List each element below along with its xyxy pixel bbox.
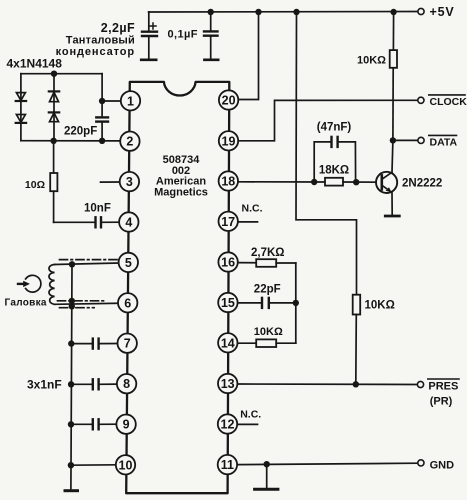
wire left vertical bus bbox=[71, 264, 72, 488]
svg-text:11: 11 bbox=[221, 458, 234, 472]
wire pin12 N.C. stub bbox=[238, 423, 258, 425]
head icon bbox=[18, 275, 41, 292]
svg-text:3: 3 bbox=[126, 175, 133, 189]
wire right local vertical bbox=[295, 263, 297, 343]
core dash-dot top bbox=[60, 259, 118, 261]
resistor R4 18K bbox=[325, 178, 382, 186]
wire +5V top rail bbox=[149, 11, 418, 14]
svg-text:Танталовый: Танталовый bbox=[66, 35, 135, 47]
node top rail / pin20 riser bbox=[255, 9, 261, 15]
node bottom rail / 10ohm bbox=[50, 138, 56, 144]
wire pin20 to +5V bbox=[238, 12, 259, 100]
svg-text:13: 13 bbox=[221, 377, 235, 391]
node head vertical mid bbox=[69, 298, 75, 304]
resistor R5 2.7K bbox=[256, 259, 296, 267]
ground transistor emitter bbox=[385, 215, 399, 218]
node 22pF right bbox=[293, 300, 299, 306]
svg-text:10KΩ: 10KΩ bbox=[254, 326, 283, 338]
wire diode top rail bbox=[21, 73, 102, 75]
wire to 10nF bbox=[54, 221, 96, 223]
svg-text:GND: GND bbox=[430, 460, 455, 472]
svg-text:+5V: +5V bbox=[430, 5, 455, 19]
svg-text:7: 7 bbox=[124, 337, 131, 351]
node diode top rail bbox=[51, 71, 57, 77]
pin 3 bbox=[120, 172, 139, 191]
diode D1 bbox=[16, 93, 26, 101]
capacitor C3 220pF bbox=[96, 117, 108, 140]
capacitor C6 1nF bbox=[71, 379, 117, 389]
wire diode bottom rail to pin 2 bbox=[21, 140, 121, 142]
svg-text:6: 6 bbox=[124, 296, 131, 310]
node base bbox=[353, 179, 359, 185]
node bottom rail / 220pF bbox=[99, 138, 105, 144]
svg-text:19: 19 bbox=[222, 134, 236, 148]
pin 20 bbox=[219, 90, 238, 109]
svg-text:9: 9 bbox=[123, 418, 130, 432]
diode D3 bbox=[49, 91, 59, 101]
resistor R3 10K bbox=[353, 295, 361, 385]
svg-text:(PR): (PR) bbox=[430, 396, 453, 408]
svg-text:10KΩ: 10KΩ bbox=[365, 300, 395, 312]
node 1nF c bbox=[68, 421, 74, 427]
svg-text:конденсатор: конденсатор bbox=[56, 46, 135, 58]
svg-text:17: 17 bbox=[221, 215, 235, 229]
svg-text:4: 4 bbox=[125, 216, 132, 230]
terminal DATA bbox=[418, 137, 424, 143]
wire pin13 PRES line bbox=[238, 383, 417, 386]
wire pin17 N.C. stub bbox=[238, 221, 258, 223]
node DATA bbox=[390, 137, 396, 143]
pin 15 bbox=[218, 293, 237, 312]
wire pin16 to 2.7K bbox=[238, 262, 256, 264]
svg-text:22pF: 22pF bbox=[254, 283, 281, 295]
ground left bus bbox=[65, 489, 78, 492]
core dash-dot bottom bbox=[60, 307, 95, 309]
pin 4 bbox=[119, 212, 138, 231]
wire pin11 GND line bbox=[238, 463, 418, 464]
svg-text:12: 12 bbox=[221, 418, 235, 432]
terminal CLOCK bbox=[418, 97, 424, 103]
svg-text:15: 15 bbox=[221, 296, 235, 310]
node head vertical bottom bbox=[69, 303, 75, 309]
svg-text:(47nF): (47nF) bbox=[317, 122, 352, 134]
node top rail / long vertical bbox=[293, 9, 299, 15]
svg-text:3x1nF: 3x1nF bbox=[27, 378, 62, 392]
inductor L1 head coil bbox=[49, 265, 55, 305]
diode D4 bbox=[49, 112, 59, 121]
node 1nF b bbox=[68, 381, 74, 387]
capacitor C5 1nF bbox=[71, 339, 117, 349]
node PRES / 10K bbox=[353, 381, 359, 387]
terminal GND bbox=[418, 460, 424, 466]
pin 13 bbox=[218, 374, 237, 393]
node GND ground bbox=[264, 461, 270, 467]
pin 11 bbox=[218, 455, 237, 474]
pin 9 bbox=[116, 415, 135, 434]
svg-text:10Ω: 10Ω bbox=[25, 179, 45, 191]
IC U1 body bbox=[126, 82, 229, 493]
pin 5 bbox=[119, 253, 138, 272]
pin 16 bbox=[218, 252, 237, 271]
wire pin18 to base network bbox=[238, 181, 325, 183]
capacitor C4 10nF bbox=[96, 217, 120, 227]
wire stub to pin 1 bbox=[102, 100, 121, 102]
wire DATA bbox=[393, 139, 418, 141]
svg-text:1: 1 bbox=[127, 94, 134, 108]
svg-text:14: 14 bbox=[221, 336, 235, 350]
svg-text:20: 20 bbox=[222, 94, 236, 108]
svg-text:PRES: PRES bbox=[428, 381, 458, 393]
wire to pin 10 bbox=[71, 464, 116, 466]
svg-text:Галовка: Галовка bbox=[5, 298, 47, 309]
IC U1 pin circles bbox=[116, 90, 239, 474]
node pin10 wire bbox=[68, 462, 74, 468]
pin 2 bbox=[120, 132, 139, 151]
resistor R1 10ohm bbox=[50, 141, 57, 223]
svg-text:10KΩ: 10KΩ bbox=[357, 55, 386, 67]
wire long vertical from +5V to mid 10K bbox=[296, 12, 357, 295]
wire pin15 to 22pF bbox=[238, 302, 262, 304]
wire coil bottom to pin 6 bbox=[55, 303, 118, 304]
terminal PRES bbox=[417, 381, 423, 387]
svg-text:16: 16 bbox=[221, 256, 235, 270]
wire pin14 to 10K bbox=[238, 342, 256, 344]
node pin1 stub bbox=[99, 98, 105, 104]
svg-text:0,1µF: 0,1µF bbox=[168, 29, 198, 41]
pin 8 bbox=[117, 374, 136, 393]
IC U1 label bbox=[154, 154, 208, 199]
svg-text:5: 5 bbox=[125, 256, 132, 270]
wire riser to pin1 and 220pF bbox=[101, 74, 103, 117]
transistor Q1 2N2222 bbox=[376, 140, 397, 215]
wire diode middle column bbox=[53, 74, 55, 141]
svg-text:2: 2 bbox=[126, 135, 133, 149]
capacitor C2 0.1uF bbox=[204, 12, 218, 60]
svg-text:10: 10 bbox=[119, 458, 133, 472]
svg-text:2,2µF: 2,2µF bbox=[101, 21, 135, 35]
capacitor C1 2.2uF tantalum bbox=[141, 12, 157, 60]
pin 10 bbox=[116, 455, 135, 474]
svg-text:10nF: 10nF bbox=[84, 203, 111, 215]
svg-text:Magnetics: Magnetics bbox=[154, 187, 208, 199]
svg-text:N.C.: N.C. bbox=[240, 408, 261, 420]
svg-text:8: 8 bbox=[123, 377, 130, 391]
svg-text:DATA: DATA bbox=[430, 136, 458, 148]
wire coil top to pin 5 bbox=[55, 263, 119, 265]
svg-text:4x1N4148: 4x1N4148 bbox=[7, 56, 63, 70]
node top rail / 0.1uF bbox=[208, 9, 214, 15]
pin 12 bbox=[218, 414, 237, 433]
resistor R6 10K bbox=[256, 339, 296, 347]
svg-text:18: 18 bbox=[221, 175, 235, 189]
wire diode left column bbox=[20, 74, 22, 141]
pin 17 bbox=[219, 212, 238, 231]
pin 19 bbox=[219, 131, 238, 150]
pin 7 bbox=[118, 334, 137, 353]
capacitor C8 47nF branch bbox=[314, 137, 355, 182]
svg-text:2N2222: 2N2222 bbox=[402, 178, 442, 190]
core dash-dot mid bbox=[58, 300, 105, 302]
capacitor C9 22pF bbox=[262, 298, 296, 308]
svg-text:18KΩ: 18KΩ bbox=[319, 165, 349, 177]
node head vertical top bbox=[69, 261, 75, 267]
svg-text:220pF: 220pF bbox=[64, 126, 97, 138]
wire pin3 stub bbox=[101, 181, 120, 183]
capacitor C7 1nF bbox=[71, 419, 117, 429]
pin 6 bbox=[118, 293, 137, 312]
wire pin19 riser to CLOCK bbox=[238, 100, 418, 141]
terminal +5V bbox=[418, 8, 424, 14]
resistor R2 10K pull-up bbox=[390, 12, 397, 140]
pin 18 bbox=[219, 171, 238, 190]
node top rail / 10K riser bbox=[390, 9, 396, 15]
svg-text:N.C.: N.C. bbox=[242, 203, 263, 215]
ground symbol GND bbox=[255, 464, 278, 489]
pin 1 bbox=[121, 91, 140, 110]
pin 14 bbox=[218, 333, 237, 352]
diode D2 bbox=[16, 115, 26, 123]
svg-text:2,7KΩ: 2,7KΩ bbox=[251, 247, 285, 259]
node 1nF a bbox=[68, 340, 74, 346]
node 18K left bbox=[311, 179, 317, 185]
svg-text:CLOCK: CLOCK bbox=[430, 96, 467, 108]
